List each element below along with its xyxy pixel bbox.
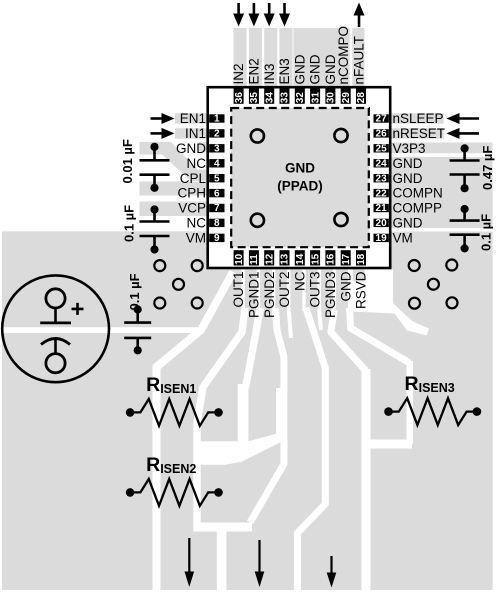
svg-text:5: 5 — [214, 173, 220, 184]
pin 12 box — [264, 250, 275, 265]
svg-text:17: 17 — [341, 253, 352, 265]
white gap below bar: OUT1 vs OUT2 — [217, 529, 227, 593]
pin 5 box — [209, 173, 224, 184]
pin3 GND stub — [199, 142, 207, 151]
white bar under RISEN3 stub — [362, 440, 413, 449]
pin 16 box — [325, 250, 336, 265]
pin 3 box — [209, 144, 224, 155]
svg-text:VCP: VCP — [178, 201, 206, 216]
capacitor C5 0.1uF GND-VM — [450, 205, 480, 253]
pin 26 box — [374, 129, 389, 140]
svg-text:6: 6 — [214, 188, 220, 199]
svg-text:26: 26 — [376, 129, 388, 140]
wire gap pins 16/17 — [333, 270, 336, 312]
svg-text:VM: VM — [393, 231, 413, 246]
EN1 trace band — [175, 113, 207, 124]
capacitor C4 0.47uF V3P3-GND — [450, 144, 480, 192]
nSLEEP trace band — [392, 113, 444, 124]
svg-text:CPH: CPH — [177, 186, 206, 201]
svg-text:3: 3 — [214, 144, 220, 155]
pin 8 box — [209, 218, 224, 229]
wire gap pins 15/16 — [318, 270, 321, 312]
white wedge below chip bottom-right corner — [351, 270, 429, 336]
pin 11 box — [249, 250, 260, 265]
pin 6 box — [209, 188, 224, 199]
PPAD GND stub right row20 — [367, 219, 375, 227]
pin 24 box — [374, 159, 389, 170]
svg-text:COMPP: COMPP — [393, 201, 443, 216]
pin 9 box — [209, 233, 224, 244]
PPAD GND stub bottom — [338, 246, 357, 255]
svg-text:0.1 µF: 0.1 µF — [479, 214, 494, 251]
pin 4 box — [209, 159, 224, 170]
motor output arrow OUT1 — [185, 538, 195, 587]
pin 1 box — [209, 114, 224, 125]
wire gap pins 13/14 — [287, 270, 290, 312]
capacitor C2 0.1uF VCP-VM — [140, 205, 170, 253]
VM power supply / bulk electrolytic capacitor — [2, 275, 109, 382]
pin 36 box — [234, 89, 245, 104]
motor output arrow OUT3 — [327, 556, 337, 588]
resistor RISEN1 — [126, 374, 223, 426]
pin 10 box — [234, 250, 245, 265]
short gap stub 15/16 — [319, 311, 321, 330]
svg-text:GND: GND — [308, 54, 323, 84]
svg-text:16: 16 — [326, 253, 337, 265]
svg-text:NC: NC — [187, 156, 207, 171]
svg-text:12: 12 — [264, 253, 275, 265]
svg-text:nFAULT: nFAULT — [351, 36, 366, 85]
pin 35 box — [249, 89, 260, 104]
pin 15 box — [310, 250, 321, 265]
wire gap pins 17/18 — [348, 270, 351, 312]
PPAD via top-left — [251, 129, 264, 142]
pin 19 box — [374, 233, 389, 244]
svg-text:OUT2: OUT2 — [277, 272, 292, 308]
GND copper pour right — [392, 157, 493, 228]
svg-text:IN3: IN3 — [262, 63, 277, 84]
white gap GND pour vs VM pour right — [392, 228, 494, 231]
resistor RISEN2 — [126, 454, 223, 506]
svg-text:EN2: EN2 — [247, 58, 262, 84]
svg-text:35: 35 — [249, 92, 260, 104]
svg-text:nSLEEP: nSLEEP — [393, 111, 444, 126]
channel W1/W0: left pour vs OUT1 trace — [157, 272, 234, 593]
svg-text:29: 29 — [341, 92, 352, 104]
svg-text:PGND3: PGND3 — [323, 272, 338, 319]
svg-text:1: 1 — [214, 114, 220, 125]
svg-text:EN1: EN1 — [180, 111, 206, 126]
pin 20 box — [374, 218, 389, 229]
W5: OUT2 vs OUT3 — [297, 308, 325, 593]
nRESET trace band — [392, 128, 444, 139]
svg-text:RSVD: RSVD — [354, 271, 369, 309]
svg-text:23: 23 — [376, 173, 388, 184]
top nFAULT strip — [352, 28, 364, 88]
svg-text:28: 28 — [356, 92, 367, 104]
svg-text:2: 2 — [214, 129, 220, 140]
pin 18 box — [356, 250, 367, 265]
svg-text:NC: NC — [292, 271, 307, 291]
pin 2 box — [209, 129, 224, 140]
IN1 trace band — [175, 128, 207, 139]
pin 22 box — [374, 188, 389, 199]
svg-text:NC: NC — [187, 216, 207, 231]
pin 27 box — [374, 114, 389, 125]
PPAD GND stub top — [302, 100, 320, 109]
V3P3 trace band — [392, 143, 493, 154]
top strip EN3 — [280, 28, 293, 88]
pin 32 box — [295, 89, 306, 104]
R3L: OUT3 vs PGND3 stub — [331, 310, 366, 371]
svg-text:33: 33 — [280, 92, 291, 104]
svg-text:32: 32 — [295, 92, 306, 104]
capacitor C3 0.1uF VM bulk bypass — [124, 305, 151, 354]
top strip EN2 — [249, 28, 262, 88]
svg-text:24: 24 — [376, 159, 388, 170]
pin 33 box — [280, 89, 291, 104]
svg-text:GND: GND — [176, 141, 206, 156]
pin 28 box — [356, 89, 367, 104]
svg-text:30: 30 — [326, 92, 337, 104]
capacitor C1 0.01uF CPL-CPH — [140, 143, 170, 192]
svg-text:19: 19 — [376, 233, 388, 244]
VM copper pour left — [2, 231, 208, 590]
wire gap pins 10/11 — [241, 270, 244, 312]
RSVD pin stub — [353, 270, 365, 282]
W2 bar under PGND2 tongue — [193, 523, 252, 532]
svg-text:21: 21 — [376, 203, 388, 214]
pin 21 box — [374, 203, 389, 214]
W2 fan: OUT1 vs PGND1 — [197, 308, 245, 526]
input arrow into pin 1 — [151, 113, 175, 124]
VM via cluster left — [154, 260, 202, 308]
PPAD via bottom-left — [251, 214, 264, 227]
svg-text:nCOMPO: nCOMPO — [336, 26, 351, 85]
svg-text:OUT3: OUT3 — [308, 272, 323, 308]
svg-text:10: 10 — [234, 253, 245, 265]
svg-text:GND: GND — [338, 271, 353, 301]
svg-text:11: 11 — [249, 254, 260, 265]
input arrow into pin 35 — [248, 3, 259, 27]
output arrow from nFAULT pin 28 — [354, 3, 365, 28]
svg-text:GND: GND — [292, 54, 307, 84]
bottom copper / trace fan area — [205, 268, 393, 590]
svg-text:9: 9 — [214, 233, 220, 244]
white page margins — [493, 0, 500, 593]
svg-text:OUT1: OUT1 — [231, 272, 246, 308]
svg-text:15: 15 — [310, 253, 321, 265]
resistor RISEN3 — [384, 373, 481, 425]
wire gap pins 11/12 — [257, 270, 260, 312]
wire gap pins 14/15 — [302, 270, 305, 312]
input arrow into pin 26 — [447, 128, 480, 139]
svg-text:7: 7 — [214, 203, 220, 214]
W4: PGND2 vs OUT2 — [250, 308, 284, 523]
svg-text:CPL: CPL — [180, 171, 207, 186]
PPAD dashed square — [231, 108, 369, 247]
svg-text:0.1 µF: 0.1 µF — [127, 273, 142, 310]
pin 31 box — [310, 89, 321, 104]
pin 17 box — [341, 250, 352, 265]
PPAD via bottom-right — [334, 213, 347, 226]
svg-text:8: 8 — [214, 218, 220, 229]
svg-text:27: 27 — [376, 114, 388, 125]
PPAD GND stub right row23 — [367, 174, 375, 182]
svg-text:18: 18 — [356, 253, 367, 265]
input arrow into pin 27 — [447, 113, 480, 124]
VM copper pour right / bottom right — [391, 232, 493, 591]
wire gap pins 12/13 — [272, 270, 275, 312]
wire gap PGND1 stub right side — [238, 384, 249, 443]
split line VM/GND left pour — [0, 327, 203, 333]
top strip IN2 — [234, 28, 247, 88]
short NC gap stub — [289, 311, 291, 338]
pin 14 box — [295, 250, 306, 265]
svg-text:20: 20 — [376, 218, 388, 229]
svg-text:EN3: EN3 — [277, 58, 292, 84]
svg-text:GND: GND — [393, 171, 423, 186]
svg-text:GND: GND — [393, 156, 423, 171]
pin 29 box — [341, 89, 352, 104]
svg-text:0.47 µF: 0.47 µF — [480, 146, 495, 190]
CPL trace band + diagonal to pin 5 — [140, 142, 207, 181]
svg-text:36: 36 — [234, 92, 245, 104]
pin 30 box — [325, 89, 336, 104]
pin 7 box — [209, 203, 224, 214]
pin 13 box — [280, 250, 291, 265]
svg-text:V3P3: V3P3 — [393, 141, 426, 156]
PPAD GND stub right row24 — [367, 159, 375, 167]
svg-text:COMPN: COMPN — [393, 186, 443, 201]
U fan: PGND1 vs PGND2 — [246, 308, 261, 388]
svg-text:34: 34 — [264, 92, 275, 104]
white U around PGND1 stub end — [199, 434, 284, 465]
svg-text:22: 22 — [376, 188, 388, 199]
svg-text:IN1: IN1 — [185, 126, 206, 141]
VCP trace band — [140, 202, 207, 217]
white gap below V3P3 band — [392, 153, 494, 157]
svg-text:4: 4 — [214, 159, 220, 170]
R3R: PGND3 stub vs right pour — [350, 308, 410, 363]
chip U1 outline — [208, 87, 391, 268]
CPH trace band — [140, 182, 207, 196]
svg-text:GND: GND — [393, 216, 423, 231]
svg-text:0.01 µF: 0.01 µF — [120, 139, 135, 183]
top merged GND/nCOMPO band — [293, 28, 349, 88]
VM via cluster right — [409, 260, 458, 309]
svg-text:14: 14 — [295, 253, 306, 265]
pin 25 box — [374, 144, 389, 155]
pin 34 box — [264, 89, 275, 104]
input arrow into pin 34 — [264, 3, 275, 27]
PPAD via top-right — [334, 129, 347, 142]
svg-text:31: 31 — [310, 92, 321, 104]
motor output arrow OUT2 — [255, 540, 265, 587]
svg-text:nRESET: nRESET — [393, 126, 446, 141]
top strip IN3 — [264, 28, 277, 88]
svg-text:PGND1: PGND1 — [247, 272, 262, 319]
svg-text:(PPAD): (PPAD) — [277, 179, 323, 194]
svg-text:25: 25 — [376, 144, 388, 155]
svg-text:PGND2: PGND2 — [262, 272, 277, 319]
wire gap PGND2 vs OUT2 upper — [276, 388, 287, 438]
svg-text:IN2: IN2 — [231, 63, 246, 84]
pin 23 box — [374, 173, 389, 184]
input arrow into pin 36 — [233, 3, 244, 27]
svg-text:GND: GND — [285, 161, 315, 176]
svg-text:13: 13 — [280, 253, 291, 265]
svg-text:0.1 µF: 0.1 µF — [122, 205, 137, 242]
input arrow into pin 33 — [279, 3, 290, 27]
svg-text:VM: VM — [186, 231, 206, 246]
input arrow into pin 2 — [151, 128, 175, 139]
